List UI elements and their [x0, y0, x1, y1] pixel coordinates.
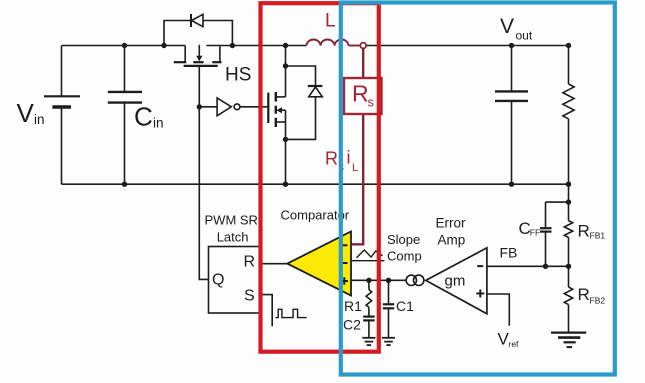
svg-text:Comp: Comp — [387, 249, 422, 264]
svg-text:R: R — [244, 254, 256, 271]
wire CFF branch — [546, 201, 569, 203]
battery V_in — [44, 46, 80, 185]
node Vout — [509, 43, 514, 48]
node Cout bottom — [509, 182, 514, 187]
resistor RFB2 — [564, 266, 572, 332]
svg-text:R: R — [325, 149, 338, 169]
capacitor C2 — [363, 317, 374, 338]
slope comp sawtooth waveform — [357, 250, 383, 258]
ground (under RFB2) — [551, 333, 586, 348]
wire load to divider — [568, 184, 570, 202]
node FB divider — [566, 264, 571, 269]
wire comparator plus input (COMP node) — [351, 279, 406, 281]
svg-text:in: in — [34, 112, 45, 127]
svg-text:Error: Error — [436, 216, 467, 231]
wire top rail right segment (node to load) — [366, 45, 569, 47]
node inverter tap — [197, 104, 202, 109]
error amp plus input mark — [476, 290, 484, 298]
transistor HS (high-side MOSFET) — [174, 45, 222, 66]
svg-text:Latch: Latch — [217, 230, 249, 245]
error amp minus input mark — [477, 265, 483, 267]
resistor Rload — [563, 46, 574, 185]
node LS ground — [283, 182, 288, 187]
resistor RFB1 — [564, 202, 572, 266]
svg-text:s: s — [368, 95, 375, 110]
capacitor C1 — [383, 280, 394, 337]
slope comp waveform baseline wire — [351, 260, 385, 262]
node LS drain / diode — [283, 63, 288, 68]
capacitor Cin — [108, 46, 142, 185]
node HS drain — [161, 43, 166, 48]
svg-text:V: V — [500, 15, 514, 38]
node load bottom — [566, 182, 571, 187]
svg-text:FB2: FB2 — [590, 296, 606, 306]
node COMP R1 — [366, 278, 371, 283]
svg-text:V: V — [17, 98, 35, 128]
svg-text:ref: ref — [509, 339, 520, 349]
node divider top — [566, 199, 571, 204]
node HS source — [230, 43, 235, 48]
transistor LS (low-side MOSFET) — [268, 46, 285, 185]
svg-text:R: R — [578, 222, 590, 241]
wire Vref to plus input — [487, 294, 509, 326]
svg-text:R1: R1 — [344, 298, 362, 314]
wire top rail mid segment (HS source to inductor) — [206, 45, 306, 47]
wire bottom ground rail — [62, 183, 569, 185]
inverter U1 (gate driver) — [199, 98, 268, 116]
svg-text:i: i — [347, 148, 351, 168]
node COMP C1 — [386, 278, 391, 283]
wire HS gate down to inverter tap — [198, 67, 200, 107]
svg-text:C1: C1 — [396, 298, 414, 314]
svg-text:Amp: Amp — [438, 233, 466, 248]
current source symbol (gm input) — [406, 275, 424, 285]
node switch — [283, 43, 288, 48]
svg-text:HS: HS — [225, 65, 251, 86]
svg-text:FB: FB — [500, 245, 518, 261]
svg-text:FF: FF — [530, 228, 540, 238]
red highlight box (current loop) — [261, 3, 379, 352]
resistor R1 — [366, 280, 372, 316]
comparator plus input mark — [341, 277, 349, 285]
diode D_HS (across high-side switch) — [191, 14, 203, 27]
wire HS diode loop — [164, 21, 232, 46]
clock pulse waveform at S — [275, 309, 306, 317]
svg-text:L: L — [352, 162, 358, 174]
node Cin bottom — [122, 182, 127, 187]
svg-text:R: R — [578, 285, 590, 304]
svg-text:L: L — [325, 11, 336, 32]
PWM SR latch box — [209, 247, 262, 314]
wire S input — [261, 295, 272, 327]
comparator minus input mark (top) — [341, 244, 348, 246]
op-amp comparator (yellow) — [287, 232, 351, 296]
node FB CFF — [543, 264, 548, 269]
svg-text:C: C — [134, 102, 153, 132]
svg-text:Q: Q — [212, 272, 224, 289]
svg-text:S: S — [244, 288, 255, 305]
cyan highlight box (control loop) — [341, 3, 615, 375]
node load top — [566, 43, 571, 48]
inductor L coil — [307, 40, 361, 46]
ground (under C1) — [382, 338, 395, 345]
wire Rs sense (dark red) — [352, 48, 364, 244]
op-amp error amplifier gm — [426, 248, 487, 314]
svg-text:in: in — [153, 116, 164, 131]
capacitor Cout — [495, 46, 528, 185]
wire latch drive (inverter tap down to Q) — [199, 107, 208, 280]
wire R input to comparator — [261, 263, 287, 265]
ground (under C2) — [362, 338, 375, 345]
wire top rail left segment (Vin to HS drain) — [62, 45, 186, 47]
node LS source / diode — [283, 137, 288, 142]
svg-text:R: R — [352, 81, 369, 107]
svg-text:Slope: Slope — [387, 232, 420, 247]
capacitor CFF — [540, 202, 552, 266]
svg-text:FB1: FB1 — [590, 231, 606, 241]
svg-text:gm: gm — [445, 273, 466, 290]
wire FB (error amp inverting input) — [487, 265, 569, 267]
diode D_LS (freewheeling diode) — [286, 66, 323, 139]
svg-text:out: out — [516, 29, 533, 43]
svg-text:C2: C2 — [343, 317, 361, 333]
svg-text:PWM SR: PWM SR — [205, 213, 258, 228]
node switch output (open circle) — [360, 43, 366, 49]
comparator minus input mark (middle) — [341, 262, 348, 264]
node Cin top — [122, 43, 127, 48]
resistor Rs (sense resistor box) — [344, 78, 382, 114]
